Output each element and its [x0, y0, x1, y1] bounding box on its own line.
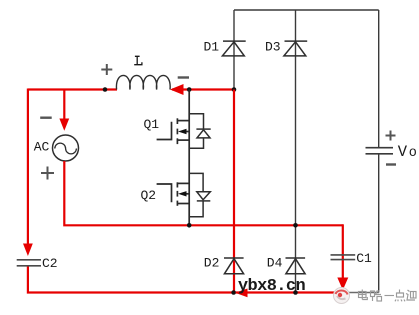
svg-text:C1: C1 — [356, 251, 372, 266]
Q2 body diode return wire — [189, 201, 203, 217]
Q2 body connection line — [184, 193, 189, 195]
Q1 body diode return wire — [189, 138, 203, 148]
capacitor C1 — [331, 255, 356, 260]
diode D3 column wire — [295, 10, 297, 293]
Q2 drain stub — [178, 182, 189, 184]
minus mark (AC) — [40, 116, 52, 118]
right rail wire (lower) — [378, 154, 380, 293]
logo icon (red swirl) — [334, 288, 350, 304]
svg-text:C2: C2 — [42, 256, 58, 271]
char 通 — [406, 290, 415, 300]
red arrow at C1 bottom (pointing down) — [337, 278, 348, 291]
char 路 — [371, 291, 375, 297]
red arrow on bottom rail (pointing left) — [235, 289, 248, 298]
node dot Q1 drain — [187, 87, 192, 92]
char 电 — [359, 292, 367, 298]
red arrow (current into inductor, pointing left) — [170, 84, 184, 95]
Q2 channel dash top — [176, 182, 178, 187]
char 一 — [385, 295, 395, 297]
Q1 channel dash bottom — [176, 138, 178, 144]
minus mark (inductor right) — [178, 76, 189, 78]
AC source symbol — [53, 135, 79, 161]
right rail wire (upper) — [378, 10, 380, 147]
node dot D3/D4 on middle rail — [293, 223, 298, 228]
diode D1 — [222, 41, 245, 56]
label L — [134, 56, 142, 64]
capacitor Vo (output cap) — [366, 148, 394, 154]
wire red: C2 bottom to bottom rail — [28, 267, 340, 293]
Q2 body diode (inverted) — [197, 192, 211, 201]
MOSFET Q1 — [157, 118, 190, 144]
top rail wire — [234, 9, 379, 11]
wire red: middle rail down to C1 with arrow — [342, 224, 344, 281]
diode D3 — [284, 41, 307, 56]
svg-text:Q2: Q2 — [141, 188, 157, 203]
Q2 channel dash middle — [176, 191, 178, 197]
diode D2 — [224, 258, 244, 274]
svg-text:D3: D3 — [265, 40, 281, 55]
Q1 trunk wire — [188, 90, 190, 226]
svg-text:Q1: Q1 — [144, 117, 160, 132]
wire red: inductor right to D1 column — [172, 88, 234, 90]
minus mark (Vo) — [386, 163, 396, 165]
node dot D2 anode on bottom rail — [231, 290, 236, 295]
red arrow into C2 (pointing down) — [23, 244, 33, 257]
Q1 source stub — [178, 139, 189, 141]
inductor L — [116, 75, 170, 89]
Q2 source stub — [178, 203, 189, 205]
Q2 body arrow — [178, 191, 187, 196]
red arrow into AC source (pointing down) — [59, 119, 69, 131]
wire red: left vertical to C2 — [27, 89, 29, 251]
Q1 body diode — [196, 129, 210, 138]
char 点 — [399, 290, 401, 294]
svg-text:D4: D4 — [267, 256, 283, 271]
plus mark (inductor left) — [101, 64, 112, 75]
Q2 gate lead — [157, 184, 172, 202]
diode D4 — [286, 258, 306, 274]
svg-text:V: V — [398, 143, 408, 161]
AC source branch red wire lower to middle rail — [64, 161, 343, 225]
Q1 gate lead — [157, 122, 172, 140]
Q1 body connection line — [184, 131, 189, 133]
node dot at inductor left — [103, 87, 108, 92]
MOSFET Q2 — [157, 182, 190, 206]
plus mark (Vo) — [386, 131, 396, 141]
logo text 电路一点通 (vector strokes) — [359, 290, 417, 302]
svg-text:ybx8.cn: ybx8.cn — [238, 277, 306, 296]
plus mark (AC) — [41, 167, 54, 180]
Q1 channel dash top — [176, 118, 178, 124]
capacitor C2 — [17, 260, 41, 266]
node dot Q2 source on middle rail — [187, 223, 192, 228]
Q1 channel dash middle — [176, 129, 178, 135]
node dot D1 anode — [232, 87, 237, 92]
node dot D4 anode on bottom rail — [293, 290, 298, 295]
AC source branch red wire upper — [63, 89, 65, 126]
svg-text:D2: D2 — [204, 256, 220, 271]
diode D1 column wire — [233, 10, 235, 90]
Q1 drain stub — [178, 120, 189, 122]
Q1 body arrow — [178, 129, 187, 134]
wire red: D1 to D2 vertical — [233, 90, 235, 293]
Q2 body diode branch — [189, 173, 203, 191]
Q2 channel dash bottom — [176, 201, 178, 206]
bottom rail grey segment — [338, 292, 379, 294]
wire red: left AC top horizontal — [28, 88, 117, 90]
svg-text:D1: D1 — [204, 40, 220, 55]
svg-text:o: o — [409, 146, 417, 161]
svg-text:AC: AC — [34, 140, 50, 155]
Q1 body diode branch — [189, 114, 203, 129]
